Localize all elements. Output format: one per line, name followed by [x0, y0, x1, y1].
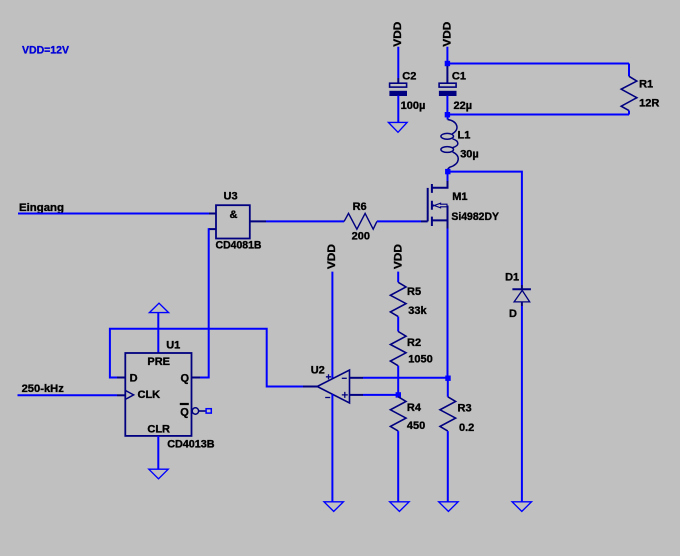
ground (below R4) [390, 502, 409, 512]
svg-text:CD4081B: CD4081B [216, 240, 262, 252]
resistor R6 [344, 201, 377, 243]
power flag VDD (above R5) [393, 244, 405, 282]
wire PRE to flag [157, 313, 159, 353]
wire U2 output to U1 D input [110, 329, 303, 387]
svg-text:R4: R4 [407, 402, 422, 414]
node junction at C1 bottom / L1 top [445, 112, 450, 117]
svg-text:Q: Q [181, 373, 190, 385]
svg-text:0.2: 0.2 [459, 422, 474, 434]
wire node to op-amp minus input [350, 377, 448, 379]
svg-text:R2: R2 [407, 337, 421, 349]
svg-text:250-kHz: 250-kHz [22, 383, 65, 395]
svg-text:22µ: 22µ [454, 100, 473, 112]
node junction at L1 bottom / M1 drain [445, 169, 450, 174]
svg-text:1050: 1050 [408, 354, 432, 366]
wire CLR to ground [157, 436, 159, 469]
svg-text:R3: R3 [458, 403, 472, 415]
wire Eingang to U3 input A [18, 213, 216, 215]
net label 250-kHz [22, 383, 65, 395]
ground flag (above U1 PRE, flipped) [149, 303, 168, 312]
AND gate U3 CD4081B [209, 191, 266, 252]
wire R4 to ground [397, 431, 399, 502]
wire R5 to R2 [397, 317, 399, 332]
svg-text:VDD=12V: VDD=12V [22, 45, 70, 57]
resistor R4 450 [390, 395, 425, 432]
svg-text:C2: C2 [402, 71, 416, 83]
svg-text:L1: L1 [458, 130, 471, 142]
wire C2 to ground [397, 96, 399, 123]
resistor R3 0.2 [440, 378, 474, 434]
wire node to M1 drain [447, 172, 449, 181]
net label Eingang [19, 202, 64, 214]
wire top rail to R1 [447, 63, 629, 65]
wire U3 output to R6 [266, 220, 344, 222]
svg-text:&: & [230, 209, 238, 221]
svg-text:VDD: VDD [393, 244, 405, 269]
power flag VDD (above C2) [392, 22, 404, 78]
flip-flop U1 CD4013B [125, 340, 214, 451]
wire R2 to node [397, 366, 399, 395]
node junction M1 source / R3 / op-amp minus [445, 376, 450, 381]
svg-text:U1: U1 [166, 340, 180, 352]
wire R6 to M1 gate [377, 220, 428, 222]
svg-text:Eingang: Eingang [19, 202, 64, 214]
wire node to op-amp plus input [350, 394, 399, 396]
ground (below D1) [512, 502, 531, 512]
svg-text:CD4013B: CD4013B [167, 438, 214, 450]
node junction at C1 top [445, 61, 450, 66]
resistor R1 12R [621, 64, 659, 115]
wire node to D1 [447, 172, 522, 285]
wire U2 supply minus to ground [331, 394, 333, 502]
wire M1 source down to node [447, 229, 449, 376]
svg-text:VDD: VDD [392, 22, 404, 47]
svg-text:CLR: CLR [147, 424, 170, 436]
power flag VDD (above U2) [326, 244, 338, 378]
wire R3 to ground [447, 431, 449, 502]
ground (below C2) [388, 122, 407, 132]
wire Q output to U3 input B [192, 229, 210, 377]
svg-text:30µ: 30µ [460, 149, 479, 161]
svg-text:Si4982DY: Si4982DY [451, 211, 499, 223]
svg-text:100µ: 100µ [401, 100, 426, 112]
resistor R5 33k [390, 282, 427, 317]
ground (below U1 CLR) [149, 469, 168, 479]
svg-text:R5: R5 [407, 286, 421, 298]
svg-text:PRE: PRE [147, 356, 170, 368]
svg-text:C1: C1 [452, 71, 466, 83]
inductor L1 [441, 115, 479, 172]
op-amp U2 [303, 364, 350, 403]
terminal pad at Q-bar output [206, 409, 211, 413]
wire R1 bottom rail [447, 114, 629, 116]
capacitor C2 [389, 71, 425, 112]
power flag VDD (above C1) [442, 22, 454, 64]
svg-text:R1: R1 [639, 78, 653, 90]
svg-text:200: 200 [352, 231, 370, 243]
svg-text:CLK: CLK [138, 389, 161, 401]
svg-text:M1: M1 [452, 191, 467, 203]
net label VDD=12V [22, 45, 70, 57]
svg-text:Q: Q [180, 407, 189, 419]
svg-text:D1: D1 [505, 272, 519, 284]
capacitor C1 [439, 64, 472, 115]
resistor R2 1050 [390, 332, 432, 366]
svg-text:VDD: VDD [442, 22, 454, 47]
svg-text:450: 450 [407, 420, 425, 432]
diode D1 [505, 272, 531, 320]
svg-text:VDD: VDD [326, 244, 338, 269]
svg-text:D: D [130, 373, 138, 385]
wire D1 to ground [521, 306, 523, 502]
svg-text:D: D [509, 308, 517, 320]
svg-text:12R: 12R [639, 97, 659, 109]
node junction R2 / R4 / op-amp plus [396, 392, 401, 397]
wire 250-kHz to CLK [18, 394, 126, 396]
svg-text:R6: R6 [353, 201, 367, 213]
ground (below U2) [324, 502, 343, 512]
transistor M1 Si4982DY [428, 181, 500, 229]
ground (below R3) [439, 502, 458, 512]
svg-text:33k: 33k [408, 305, 427, 317]
svg-text:U2: U2 [311, 364, 325, 376]
svg-text:U3: U3 [224, 191, 238, 203]
